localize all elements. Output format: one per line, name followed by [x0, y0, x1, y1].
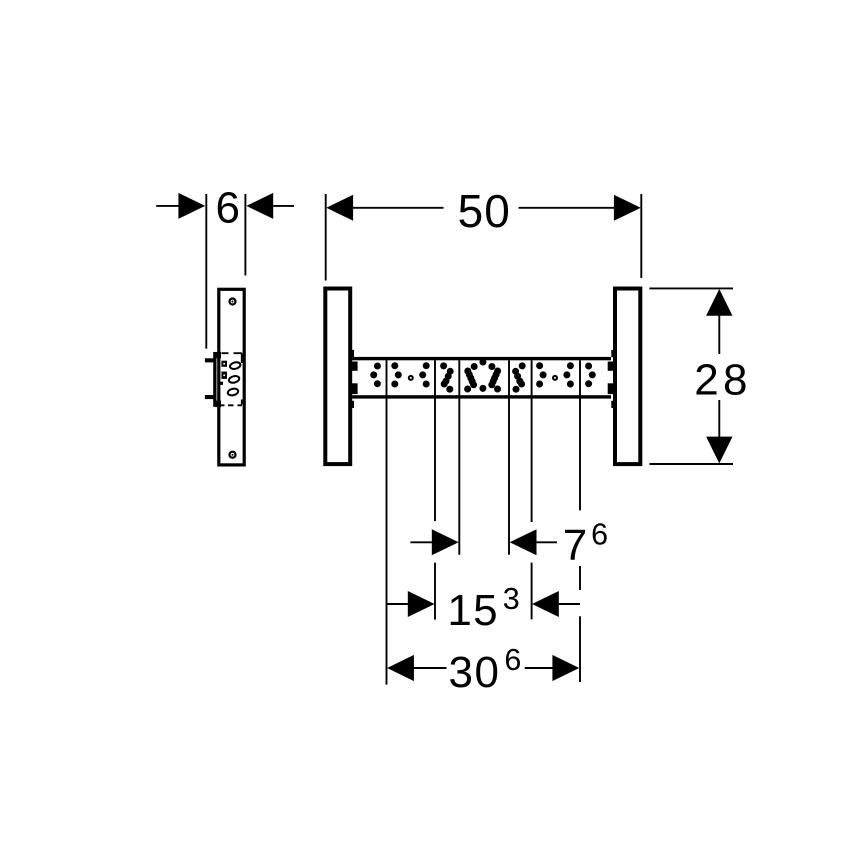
dim-30.6 line right segment — [525, 667, 554, 669]
rail right end tab A — [611, 350, 615, 357]
dim-50 line left segment — [352, 207, 444, 209]
dim-28 bottom extension line — [649, 463, 733, 465]
side-view clip lower arm — [205, 395, 216, 399]
dim-7.6 left arrowhead — [432, 529, 459, 555]
side-view clip mid tab — [218, 382, 223, 385]
dim-50 right arrowhead — [614, 195, 641, 221]
svg-text:5: 5 — [473, 586, 497, 635]
extension line L2 lower — [434, 563, 436, 620]
side-view clip bottom junction blob — [215, 401, 221, 408]
extension line L5 lower — [531, 563, 533, 620]
dim-30.6 right arrowhead — [552, 655, 579, 681]
rail hole pattern — [370, 359, 596, 393]
svg-text:6: 6 — [591, 517, 608, 551]
dim-6 right arrow tail — [273, 205, 294, 207]
dim-28 top extension line — [649, 287, 733, 289]
svg-text:0: 0 — [474, 648, 498, 697]
dim-15.3 right arrowhead — [532, 591, 559, 617]
rail left end tab B — [350, 362, 358, 371]
dim-7.6 left arrow tail — [410, 541, 433, 543]
side-view plate outline — [219, 289, 244, 465]
rail bottom edge — [352, 395, 611, 398]
svg-text:1: 1 — [447, 586, 471, 635]
rail right end tab C — [608, 383, 616, 394]
extension line L1 — [386, 360, 388, 684]
group S1 dots — [374, 363, 381, 370]
extension line L5 upper — [531, 360, 533, 522]
rail right end tab B — [608, 362, 616, 371]
group S5 dots — [519, 362, 526, 369]
dim-15.3 left arrow tail — [387, 603, 410, 605]
dim-15.3 left arrowhead — [408, 591, 435, 617]
side-view bottom screw hole — [230, 452, 236, 458]
side-view top screw hole — [230, 299, 236, 305]
dim-6 right arrowhead — [246, 193, 273, 219]
dim-6 extension line left — [205, 194, 207, 349]
side-view dashed rail outline bottom — [221, 400, 242, 406]
extension line L6 lower — [579, 616, 581, 682]
svg-text:6: 6 — [504, 643, 521, 677]
group S6 dots — [536, 362, 543, 369]
extension line L3 — [458, 360, 460, 555]
svg-text:3: 3 — [503, 582, 520, 616]
side-view dashed rail outline top — [222, 353, 242, 363]
dim-6 left arrow tail — [156, 205, 179, 207]
side-view slot 2 — [228, 375, 240, 384]
dim-30.6 line left segment — [413, 667, 447, 669]
dim-15.3 right arrow tail — [559, 603, 580, 605]
dim-6 extension line right — [244, 194, 246, 276]
side-view clip tab 1 with hole — [221, 361, 227, 367]
group S7 dots — [585, 363, 592, 370]
dim-6 left arrowhead — [178, 193, 205, 219]
dim-28 bottom arrowhead — [706, 437, 732, 464]
dim-50 extension line right — [640, 194, 642, 278]
side-view slot 1 — [229, 361, 241, 370]
side-view clip bar — [213, 352, 216, 407]
dim-50 line right segment — [519, 207, 616, 209]
svg-text:5: 5 — [458, 185, 484, 237]
group S4 center cluster dots — [479, 359, 486, 366]
dim-28 lower line segment — [718, 400, 720, 438]
side-view clip tab 2 with hole — [221, 372, 227, 379]
front-view left block — [325, 289, 350, 465]
extension line L6 upper — [579, 360, 581, 510]
rail right end tab D — [611, 401, 615, 408]
dim-28 upper line segment — [718, 315, 720, 354]
extension line L2 upper — [434, 360, 436, 521]
dim-50 left arrowhead — [326, 195, 353, 221]
dim-50 extension line left — [325, 194, 327, 281]
group S2 dots — [391, 362, 398, 369]
rail left end tab C — [350, 383, 358, 394]
dim-28 top arrowhead — [706, 289, 732, 316]
extension line L4 — [508, 360, 510, 555]
rail left end tab A — [350, 350, 354, 357]
dim-30.6 left arrowhead — [387, 655, 414, 681]
svg-text:3: 3 — [448, 648, 472, 697]
dim-7.6 right arrowhead — [510, 529, 537, 555]
svg-text:0: 0 — [484, 185, 510, 237]
group S3 dots — [440, 362, 447, 369]
rail left end tab D — [350, 401, 354, 408]
side-view clip upper arm — [205, 358, 216, 362]
svg-text:8: 8 — [723, 356, 747, 405]
side-view clip top junction blob — [215, 352, 221, 358]
rail top edge — [352, 357, 611, 360]
svg-text:2: 2 — [694, 356, 718, 405]
side-view slot 3 — [227, 388, 239, 397]
svg-text:6: 6 — [215, 183, 239, 232]
svg-text:7: 7 — [563, 521, 587, 570]
extension line L6 dash — [579, 566, 581, 590]
dim-7.6 right arrow tail — [537, 541, 558, 543]
front-view right block — [615, 289, 640, 465]
